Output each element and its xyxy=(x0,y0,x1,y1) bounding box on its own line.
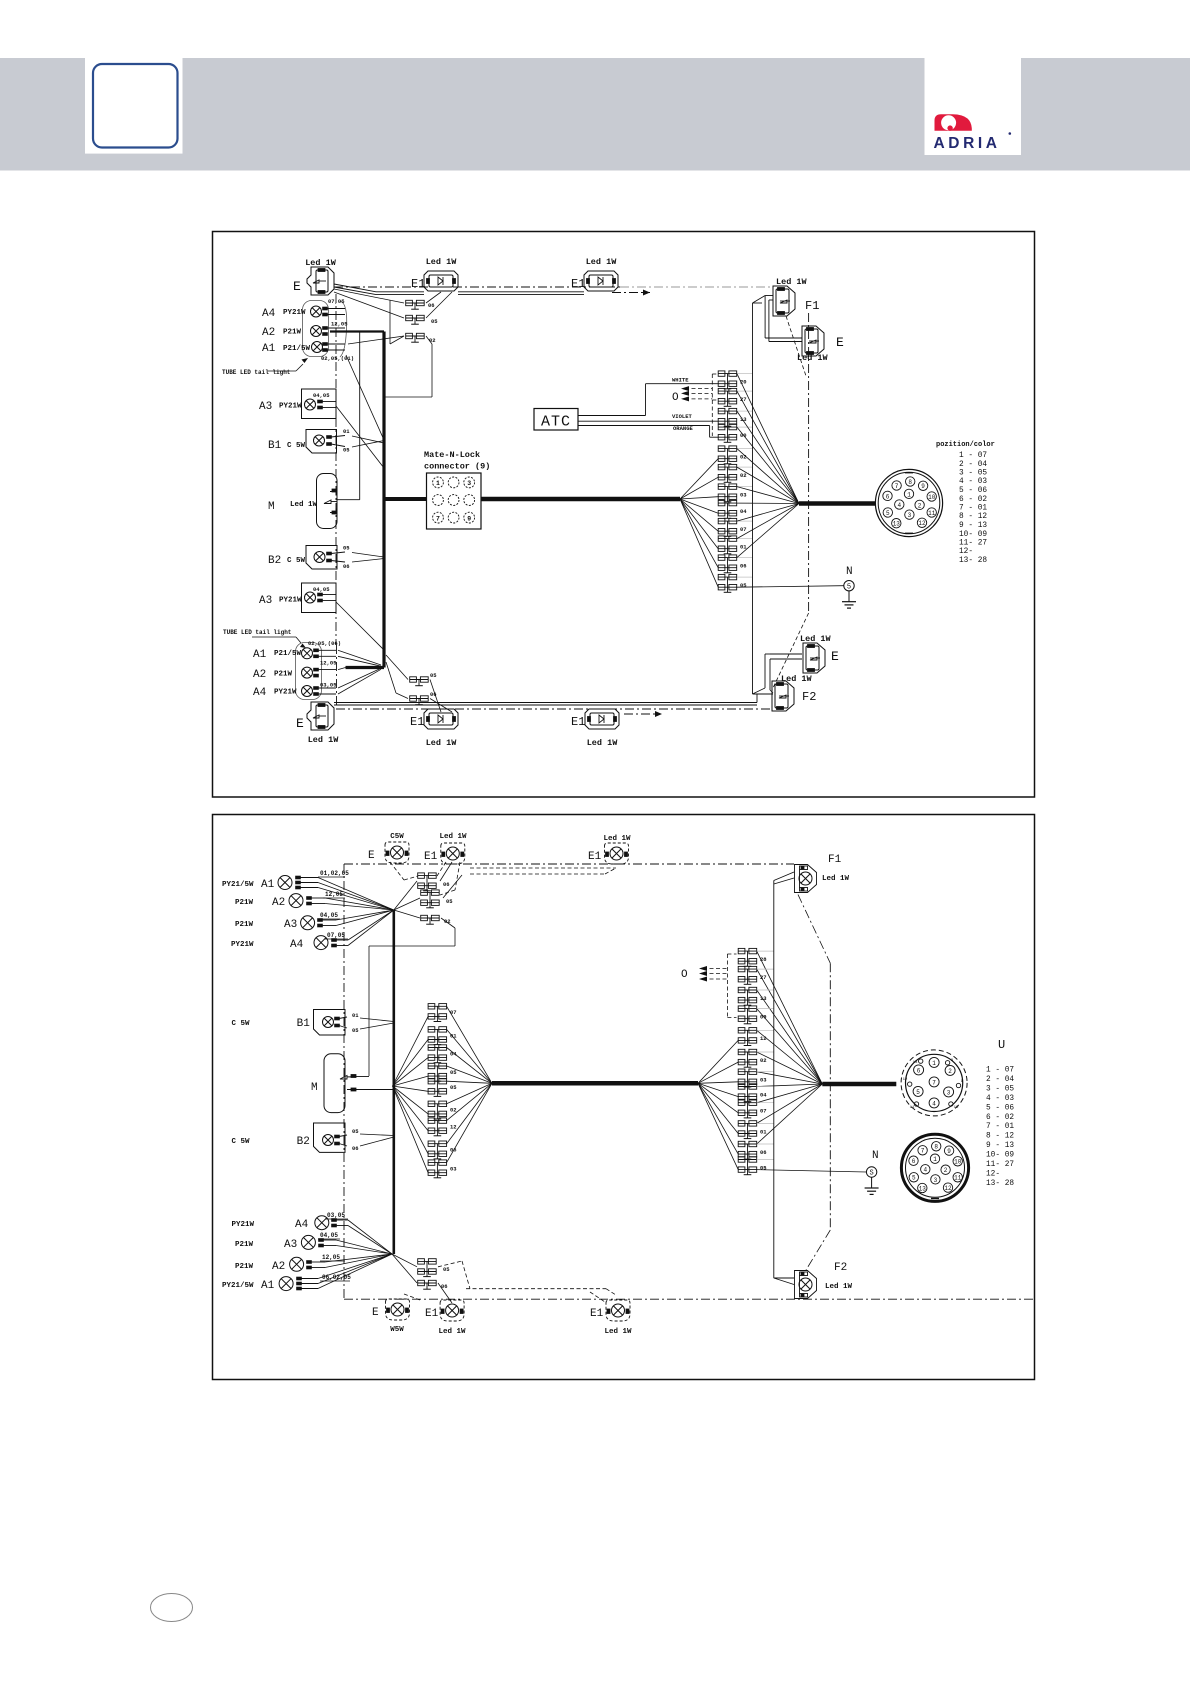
label A1 d2 xyxy=(222,879,275,891)
svg-text:2: 2 xyxy=(918,502,922,509)
label Led 1W E1b bottom d2 xyxy=(604,1328,632,1336)
label A4 d1 xyxy=(262,308,306,320)
svg-text:ADRIA: ADRIA xyxy=(934,135,1001,152)
svg-text:9: 9 xyxy=(947,1148,951,1155)
svg-text:3: 3 xyxy=(934,1177,938,1184)
lamp B1 d2 xyxy=(314,1010,348,1036)
svg-text:Led 1W: Led 1W xyxy=(426,738,458,748)
svg-text:A4: A4 xyxy=(262,308,276,320)
svg-text:PY21W: PY21W xyxy=(279,597,302,605)
svg-text:05: 05 xyxy=(446,898,453,905)
svg-text:04,05: 04,05 xyxy=(320,912,338,919)
lamp A1 d1 xyxy=(312,342,346,353)
svg-text:9 - 13: 9 - 13 xyxy=(959,522,987,530)
lamp M d1 xyxy=(317,474,338,529)
svg-text:Led 1W: Led 1W xyxy=(603,835,631,843)
header band xyxy=(0,58,1190,171)
svg-text:P21W: P21W xyxy=(235,1241,254,1249)
svg-text:1 - 07: 1 - 07 xyxy=(986,1067,1014,1075)
svg-text:02: 02 xyxy=(740,472,747,479)
svg-text:M: M xyxy=(268,501,275,513)
svg-text:07: 07 xyxy=(450,1009,457,1016)
connector E right d1 xyxy=(803,643,839,673)
svg-text:E: E xyxy=(368,850,375,862)
svg-text:11: 11 xyxy=(910,1106,915,1110)
svg-text:10: 10 xyxy=(954,1159,962,1166)
svg-text:13: 13 xyxy=(913,1061,918,1065)
svg-text:03: 03 xyxy=(450,1166,457,1173)
label Led 1W above E1 xyxy=(426,257,458,267)
svg-text:06: 06 xyxy=(343,563,350,570)
dash-dot axis top d1 xyxy=(334,286,770,288)
svg-text:12,05: 12,05 xyxy=(322,1254,340,1261)
svg-text:N: N xyxy=(846,566,853,578)
label A2 d2 xyxy=(235,897,285,909)
svg-text:P21W: P21W xyxy=(274,671,293,679)
svg-text:1: 1 xyxy=(907,491,911,498)
svg-text:02: 02 xyxy=(429,337,436,344)
svg-text:C 5W: C 5W xyxy=(232,1020,251,1028)
svg-text:6: 6 xyxy=(912,1158,916,1165)
label B1 d1 xyxy=(268,440,306,452)
svg-text:11: 11 xyxy=(954,1175,962,1182)
fuse column labels d1 xyxy=(740,379,747,590)
svg-text:8 - 12: 8 - 12 xyxy=(959,513,987,521)
label O d1 xyxy=(672,392,679,404)
svg-text:WHITE: WHITE xyxy=(672,377,689,384)
bracket outline top d1 xyxy=(340,301,347,357)
arrow marker bottom d1 xyxy=(624,711,662,717)
wire fan right d1 xyxy=(737,374,799,558)
svg-text:05: 05 xyxy=(430,672,437,679)
svg-text:11: 11 xyxy=(928,510,936,517)
svg-text:13: 13 xyxy=(893,521,901,528)
codes B1 xyxy=(343,428,350,454)
connector E1b top d2 xyxy=(588,843,629,864)
svg-text:12: 12 xyxy=(903,1078,908,1082)
svg-text:ORANGE: ORANGE xyxy=(673,425,694,432)
fuse cluster bottom d1 xyxy=(410,677,429,705)
svg-text:05: 05 xyxy=(343,545,350,552)
svg-text:Led 1W: Led 1W xyxy=(587,738,619,748)
connector E1b top d1 xyxy=(571,271,618,291)
label Led 1W E1 bottom d2 xyxy=(438,1328,466,1336)
connector E bottom d2 xyxy=(372,1299,410,1320)
svg-text:12-: 12- xyxy=(959,548,973,556)
connector F2 d1 xyxy=(772,681,816,711)
svg-text:01: 01 xyxy=(343,428,350,435)
svg-text:02: 02 xyxy=(450,1107,457,1114)
svg-text:9: 9 xyxy=(921,483,925,490)
dash-dot axis bottom d2 xyxy=(344,1298,1033,1300)
svg-text:1: 1 xyxy=(933,1156,937,1163)
svg-text:W5W: W5W xyxy=(390,1326,404,1334)
svg-text:E1: E1 xyxy=(571,277,585,291)
lamp A1 d2 xyxy=(278,876,318,890)
svg-text:7: 7 xyxy=(436,515,440,522)
svg-text:B2: B2 xyxy=(297,1136,310,1148)
wire A3b trunk xyxy=(336,602,384,650)
svg-text:A1: A1 xyxy=(261,879,275,891)
svg-text:04: 04 xyxy=(740,508,747,515)
label F2 d2 xyxy=(825,1262,853,1291)
svg-text:U: U xyxy=(998,1038,1005,1052)
header rounded box xyxy=(93,64,178,148)
wire fan mid-right d2 xyxy=(447,1006,492,1162)
svg-text:Led 1W: Led 1W xyxy=(797,353,829,363)
lamp group outline top d1 xyxy=(303,301,329,357)
svg-text:07: 07 xyxy=(740,526,747,533)
fuse cluster top d2 xyxy=(418,873,440,924)
wires B1 d2 xyxy=(360,1018,394,1029)
svg-text:10: 10 xyxy=(954,1106,959,1110)
connector E bottom d1 xyxy=(296,702,334,731)
svg-text:Led 1W: Led 1W xyxy=(586,257,618,267)
svg-text:3 - 05: 3 - 05 xyxy=(986,1085,1014,1093)
label B1 d2 xyxy=(232,1018,311,1030)
label C5W top xyxy=(390,833,404,841)
svg-text:VIOLET: VIOLET xyxy=(672,413,693,420)
svg-text:S: S xyxy=(869,1170,873,1178)
label A3 bottom d2 xyxy=(235,1239,297,1251)
lamp M d2 xyxy=(324,1054,356,1113)
label Mate-N-Lock xyxy=(424,450,490,472)
connector F2 d2 xyxy=(795,1271,817,1299)
fuse cluster top labels d2 xyxy=(443,881,453,925)
lamp A4 bottom d1 xyxy=(302,686,337,697)
svg-text:Led 1W: Led 1W xyxy=(426,257,458,267)
svg-text:7: 7 xyxy=(921,1148,925,1155)
lamp B1 d1 xyxy=(306,430,345,454)
dash-dot axis bottom-left d1 xyxy=(336,645,338,708)
wires B2 trunk xyxy=(352,553,384,563)
wire ATC orange xyxy=(578,426,718,438)
svg-text:06: 06 xyxy=(443,881,450,888)
label Led 1W E1b top d2 xyxy=(603,835,631,843)
wires cluster bottom d1 xyxy=(386,655,452,712)
svg-text:A3: A3 xyxy=(259,401,272,413)
legend list d2 xyxy=(986,1067,1014,1188)
svg-text:O: O xyxy=(672,392,679,404)
dash-dot axis left d2 xyxy=(343,864,345,1300)
svg-text:E: E xyxy=(831,649,839,664)
svg-text:E1: E1 xyxy=(571,715,585,729)
wire fan right-left d2 xyxy=(698,1040,738,1169)
code A2 d2 xyxy=(323,891,345,898)
svg-text:5: 5 xyxy=(912,1175,916,1182)
svg-text:01: 01 xyxy=(352,1012,359,1019)
svg-text:04,05: 04,05 xyxy=(320,1232,338,1239)
svg-text:1: 1 xyxy=(436,480,440,487)
wire pair bottom d1 xyxy=(334,694,757,705)
wires B1 trunk xyxy=(352,436,384,447)
dashed O arrows d2 xyxy=(699,954,737,1018)
svg-text:05: 05 xyxy=(352,1128,359,1135)
code A3 bottom d2 xyxy=(318,1232,340,1239)
svg-text:7: 7 xyxy=(895,483,899,490)
fuse cluster labels xyxy=(428,302,438,344)
lamp A1 bottom d1 xyxy=(302,648,337,659)
svg-text:9: 9 xyxy=(467,515,471,522)
svg-text:12,05: 12,05 xyxy=(320,660,337,667)
svg-text:8: 8 xyxy=(908,479,912,486)
connector E1b bottom d1 xyxy=(571,709,619,729)
svg-text:11- 27: 11- 27 xyxy=(959,540,987,548)
wire ATC violet xyxy=(578,420,718,422)
svg-text:A1: A1 xyxy=(261,1280,275,1292)
lamp A2 d1 xyxy=(311,326,346,337)
svg-text:12: 12 xyxy=(760,1035,767,1042)
ATC box xyxy=(534,409,578,431)
wire B1 trunk xyxy=(337,332,360,500)
svg-text:Led 1W: Led 1W xyxy=(776,277,808,287)
svg-text:P21W: P21W xyxy=(235,921,254,929)
svg-text:E: E xyxy=(296,716,304,731)
svg-text:03,05: 03,05 xyxy=(327,1212,345,1219)
fuse cluster top d1 xyxy=(406,300,425,342)
lamp A2 bottom d1 xyxy=(302,667,337,678)
svg-text:07,05: 07,05 xyxy=(327,932,345,939)
frame diagram 1 xyxy=(213,232,1035,798)
svg-text:F1: F1 xyxy=(805,299,819,313)
fuse cluster bottom labels d2 xyxy=(441,1266,450,1290)
label Led 1W F1 xyxy=(776,277,808,287)
connector E2 right d1 xyxy=(802,326,844,356)
wires cluster bottom d2 xyxy=(392,1254,452,1303)
svg-text:06: 06 xyxy=(760,1149,767,1156)
svg-text:04,05: 04,05 xyxy=(313,586,330,593)
bus wire right d1 xyxy=(799,501,876,506)
wires cluster top d1 xyxy=(334,289,452,397)
svg-text:5 - 06: 5 - 06 xyxy=(986,1104,1014,1112)
code A1 bottom d2 xyxy=(320,1274,351,1281)
svg-text:A3: A3 xyxy=(284,919,297,931)
lamp A4 d1 xyxy=(311,306,346,317)
connector 13pin upper d2 xyxy=(901,1050,967,1116)
label A4 bottom d1 xyxy=(253,687,297,699)
label Led 1W E1 top d2 xyxy=(439,833,467,841)
svg-text:7 - 01: 7 - 01 xyxy=(959,505,987,513)
svg-text:A2: A2 xyxy=(272,1261,285,1273)
ground N d2 xyxy=(865,1150,879,1194)
connector E1 bottom d2 xyxy=(425,1300,464,1321)
svg-text:3: 3 xyxy=(908,512,912,519)
label A1 bottom d1 xyxy=(253,649,302,661)
svg-text:PY21/5W: PY21/5W xyxy=(222,1282,254,1290)
label A3 d2 xyxy=(235,919,297,931)
dashed wires bottom d2 xyxy=(404,1261,616,1302)
codes B2 xyxy=(343,545,350,571)
svg-text:11- 27: 11- 27 xyxy=(986,1161,1014,1169)
dash-dot axis bottom d1 xyxy=(336,708,770,710)
label A3 top d1 xyxy=(259,401,302,413)
svg-text:M: M xyxy=(311,1082,318,1094)
bus wire right d2 xyxy=(822,1082,896,1087)
connector E top d2 xyxy=(368,842,409,863)
wires M d2 xyxy=(356,1077,394,1090)
lamp A3 bottom d1 xyxy=(302,583,337,613)
svg-text:06: 06 xyxy=(428,302,435,309)
dashed O arrows d1 xyxy=(681,374,717,436)
svg-text:01,02,05: 01,02,05 xyxy=(320,870,349,877)
dash-dot axis left d1 xyxy=(335,294,337,645)
label ORANGE xyxy=(673,425,694,432)
ground N d1 xyxy=(842,566,856,608)
label Led 1W F2 xyxy=(781,674,813,684)
label B2 d2 xyxy=(232,1136,310,1148)
label A4 bottom d2 xyxy=(232,1219,309,1231)
svg-text:F2: F2 xyxy=(834,1262,847,1274)
wire pair top d1 xyxy=(334,284,584,295)
svg-text:13: 13 xyxy=(919,1185,927,1192)
connector E1 top d2 xyxy=(424,843,465,864)
code 03,05 b xyxy=(320,682,337,689)
bus wire mid d2 xyxy=(492,1081,698,1086)
svg-text:N: N xyxy=(872,1150,879,1162)
svg-text:PY21W: PY21W xyxy=(231,941,254,949)
fuse column mid d2 xyxy=(428,1004,447,1178)
svg-text:2 - 04: 2 - 04 xyxy=(986,1076,1014,1084)
code 12,05 xyxy=(331,321,348,328)
fuse cluster bottom labels xyxy=(430,672,437,698)
svg-text:3 - 05: 3 - 05 xyxy=(959,470,987,478)
header white patch left xyxy=(85,58,183,154)
wire fan right-right d2 xyxy=(757,951,823,1144)
legend list d1 xyxy=(959,452,987,565)
wire A3 trunk d1 xyxy=(336,355,384,468)
connector Mate-N-Lock xyxy=(427,473,482,529)
svg-text:05: 05 xyxy=(431,318,438,325)
svg-text:PY21W: PY21W xyxy=(232,1221,255,1229)
svg-text:12,05: 12,05 xyxy=(331,321,348,328)
svg-text:03: 03 xyxy=(740,492,747,499)
svg-text:Led 1W: Led 1W xyxy=(604,1328,632,1336)
lamp A2 d2 xyxy=(289,894,325,908)
connector 13pin d1 xyxy=(875,469,942,536)
ADRIA logo xyxy=(934,114,1012,152)
wires cluster top d2 xyxy=(369,862,462,1076)
svg-text:4: 4 xyxy=(897,502,901,509)
label A1 bottom d2 xyxy=(222,1280,275,1292)
lamp A3 d2 xyxy=(301,916,336,930)
lamp A3 top d1 xyxy=(302,389,337,419)
dash-dot vertical F d1 xyxy=(772,313,809,690)
label A3 bottom d1 xyxy=(259,595,302,607)
wire feeders gray d2 xyxy=(757,951,774,1159)
label M d2 xyxy=(311,1082,318,1094)
svg-text:ATC: ATC xyxy=(541,414,571,431)
svg-text:05: 05 xyxy=(443,1266,450,1273)
svg-text:P21/5W: P21/5W xyxy=(283,345,311,353)
lamp A3 bottom d2 xyxy=(301,1235,336,1249)
fuse column mid labels d2 xyxy=(450,1009,457,1172)
svg-text:P21W: P21W xyxy=(283,329,302,337)
code 07,05 xyxy=(328,298,345,305)
svg-text:P21W: P21W xyxy=(235,1263,254,1271)
wire ground row d2 xyxy=(757,1170,867,1172)
svg-text:8: 8 xyxy=(934,1144,938,1151)
svg-text:connector (9): connector (9) xyxy=(424,462,490,472)
svg-text:A4: A4 xyxy=(253,687,267,699)
wire vertical F d1 xyxy=(753,303,774,694)
svg-text:A3: A3 xyxy=(259,595,272,607)
svg-text:06: 06 xyxy=(352,1145,359,1152)
arrow marker top d1 xyxy=(612,290,650,296)
svg-text:Led 1W: Led 1W xyxy=(290,501,318,509)
svg-text:E1: E1 xyxy=(590,1308,604,1320)
svg-text:PY21W: PY21W xyxy=(279,403,302,411)
bus wire mid d1 xyxy=(481,497,680,502)
svg-text:10- 09: 10- 09 xyxy=(986,1152,1014,1160)
lamp A4 bottom d2 xyxy=(315,1216,348,1230)
connector 13pin lower d2 xyxy=(901,1134,968,1201)
label Led 1W below E b xyxy=(308,735,340,745)
label Led 1W E right xyxy=(800,634,832,644)
label B2 d1 xyxy=(268,555,306,567)
svg-text:E1: E1 xyxy=(424,851,438,863)
svg-text:9 - 13: 9 - 13 xyxy=(986,1142,1014,1150)
svg-text:PY21W: PY21W xyxy=(283,309,306,317)
label A1 d1 xyxy=(262,343,311,355)
label A4 d2 xyxy=(231,939,304,951)
svg-text:6 - 02: 6 - 02 xyxy=(986,1114,1014,1122)
lamp A1 bottom d2 xyxy=(279,1277,318,1291)
label A2 bottom d2 xyxy=(235,1261,285,1273)
dash-dot F1 diag d2 xyxy=(798,895,830,1270)
code A1 d2 xyxy=(318,870,349,877)
frame diagram 2 xyxy=(213,815,1035,1380)
svg-text:Led 1W: Led 1W xyxy=(781,674,813,684)
svg-text:Led 1W: Led 1W xyxy=(822,875,850,883)
svg-text:5: 5 xyxy=(886,510,890,517)
svg-text:3: 3 xyxy=(947,1089,951,1096)
svg-text:5 - 06: 5 - 06 xyxy=(959,487,987,495)
svg-text:E: E xyxy=(372,1307,379,1319)
dashed wires top d2 xyxy=(390,862,616,895)
trunk wire d1 xyxy=(330,332,384,668)
label TUBE LED tail light bottom xyxy=(223,629,306,648)
wire feeders gray d1 xyxy=(737,374,753,577)
label VIOLET xyxy=(672,413,693,420)
svg-text:07: 07 xyxy=(760,1108,767,1115)
label M d1 xyxy=(268,501,318,513)
svg-text:05: 05 xyxy=(740,582,747,589)
svg-text:10- 09: 10- 09 xyxy=(959,531,987,539)
svg-text:8 - 12: 8 - 12 xyxy=(986,1133,1014,1141)
lamp A4 d2 xyxy=(314,936,348,950)
label Led 1W E2 right xyxy=(797,353,829,363)
label Led 1W above E1b xyxy=(586,257,618,267)
svg-text:A1: A1 xyxy=(253,649,267,661)
svg-text:PY21W: PY21W xyxy=(274,689,297,697)
svg-text:TUBE LED tail light: TUBE LED tail light xyxy=(222,369,291,376)
svg-text:B2: B2 xyxy=(268,555,281,567)
svg-text:2 - 04: 2 - 04 xyxy=(959,461,987,469)
svg-text:05: 05 xyxy=(760,1164,767,1171)
wires B2 d2 xyxy=(360,1134,394,1146)
svg-text:A2: A2 xyxy=(253,669,266,681)
svg-text:Led 1W: Led 1W xyxy=(438,1328,466,1336)
svg-text:05: 05 xyxy=(343,447,350,454)
svg-text:1: 1 xyxy=(932,1060,936,1067)
svg-text:10: 10 xyxy=(928,494,936,501)
footer ellipse xyxy=(151,1594,193,1622)
svg-text:F1: F1 xyxy=(828,854,842,866)
svg-text:O: O xyxy=(681,969,688,981)
trunk wire d2 xyxy=(392,910,395,1254)
svg-text:C5W: C5W xyxy=(390,833,404,841)
svg-text:12: 12 xyxy=(450,1124,457,1131)
